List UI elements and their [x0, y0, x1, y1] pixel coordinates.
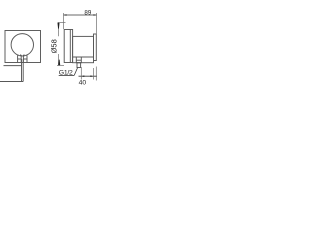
svg-text:G1/2: G1/2 — [59, 70, 73, 77]
svg-text:Ø58: Ø58 — [49, 39, 58, 53]
svg-text:89: 89 — [84, 10, 91, 17]
svg-text:40: 40 — [79, 79, 87, 86]
